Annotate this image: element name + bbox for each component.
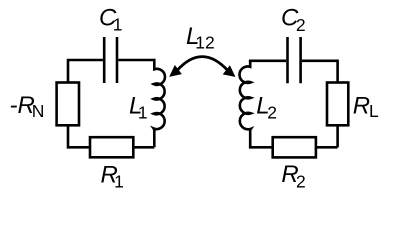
wire bottom-right of right loop	[316, 146, 338, 149]
coupling arrow L12 arc	[177, 57, 228, 71]
svg-text:R: R	[353, 93, 370, 120]
svg-text:2: 2	[296, 15, 306, 35]
inductor L1	[154, 59, 165, 148]
wire right rail bottom stub	[336, 125, 339, 147]
wire top-left of right loop	[250, 60, 286, 61]
svg-text:L: L	[369, 101, 379, 121]
svg-text:1: 1	[113, 15, 123, 35]
svg-text:2: 2	[267, 103, 277, 123]
wire top-right of left loop	[118, 59, 154, 62]
wire top-left of left loop	[68, 59, 103, 62]
svg-text:2: 2	[296, 171, 306, 191]
resistor R1	[90, 137, 133, 157]
svg-text:12: 12	[195, 33, 214, 53]
wire left rail top stub	[67, 59, 70, 83]
capacitor C1	[104, 37, 117, 83]
inductor L2	[239, 61, 272, 148]
wire right rail top stub	[336, 60, 339, 83]
resistor -RN	[57, 83, 79, 126]
wire left rail bottom stub	[68, 125, 90, 147]
svg-text:1: 1	[114, 172, 124, 192]
wire top-right of right loop	[302, 59, 338, 62]
resistor RL	[327, 83, 348, 126]
svg-text:N: N	[32, 101, 45, 121]
coupling arrow right head	[224, 66, 235, 76]
resistor R2	[273, 137, 316, 157]
wire bottom-right of left loop	[133, 146, 154, 149]
coupling arrow left head	[170, 66, 181, 76]
capacitor C2	[288, 37, 301, 83]
svg-text:1: 1	[138, 103, 148, 123]
